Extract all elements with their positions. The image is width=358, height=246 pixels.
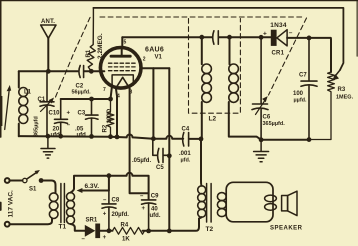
T1 core: [61, 184, 65, 223]
terminal 117VAC bottom: [5, 222, 10, 227]
svg-text:SPEAKER: SPEAKER: [270, 226, 303, 232]
node C5 / B+ riser: [167, 153, 172, 158]
wire bottom AC leg: [10, 219, 52, 225]
scan border left: [0, 0, 2, 137]
svg-text:C4: C4: [182, 127, 190, 133]
svg-text:1N34: 1N34: [270, 22, 287, 29]
resistor R3 1MEG: [309, 72, 334, 140]
svg-text:C10: C10: [49, 111, 61, 117]
V1 plate lead: [121, 37, 124, 56]
svg-text:S1: S1: [29, 187, 37, 193]
inductor L2 left winding: [201, 37, 203, 64]
wire pin2 ground drop: [152, 68, 154, 138]
svg-text:µfd.: µfd.: [181, 158, 191, 164]
svg-text:C1: C1: [38, 97, 46, 103]
wire cathode bus: [61, 98, 111, 100]
wire C4 to T2 node: [189, 138, 201, 140]
svg-text:1MEG.: 1MEG.: [336, 95, 354, 101]
wire ground rail (left): [19, 135, 183, 139]
node C3 bottom: [89, 134, 94, 139]
wire T2 primary bottom: [199, 217, 202, 218]
svg-text:CR1: CR1: [272, 51, 285, 57]
transformer T1 primary: [49, 193, 58, 219]
node C6 bottom (ground): [259, 137, 264, 142]
svg-text:.05µfd.: .05µfd.: [132, 158, 151, 164]
antenna ANT: [41, 25, 56, 38]
wire cathode pin7 lead: [111, 85, 113, 99]
svg-text:C5: C5: [156, 165, 164, 171]
node antenna junction: [46, 69, 51, 74]
T2 core: [207, 184, 212, 223]
wire 6.3V line: [74, 173, 149, 200]
svg-text:C6: C6: [263, 115, 271, 121]
V1 cathode: [112, 75, 133, 85]
wire L2/T2 riser: [200, 139, 203, 186]
C1 arrow: [41, 101, 52, 112]
scan border right: [356, 0, 358, 56]
node pin2/C5 junction: [151, 136, 156, 141]
switch S1: [23, 178, 27, 182]
svg-text:100Ω: 100Ω: [107, 108, 113, 123]
svg-text:ANT.: ANT.: [41, 19, 55, 25]
svg-text:40: 40: [151, 207, 158, 213]
node C1 bottom: [46, 134, 51, 139]
svg-text:365µµfd.: 365µµfd.: [263, 121, 286, 127]
coupling capacitor (L2): [213, 31, 219, 44]
transformer T2 secondary: [217, 193, 226, 217]
svg-text:R4: R4: [121, 223, 129, 229]
V1 plate: [111, 55, 130, 58]
V1 heater: [116, 77, 130, 88]
svg-text:L1: L1: [24, 90, 32, 96]
svg-text:T2: T2: [206, 226, 214, 233]
svg-text:1K: 1K: [122, 237, 130, 243]
scan border left tick: [0, 203, 2, 211]
L1 tuning arrow: [5, 89, 10, 130]
svg-text:+: +: [263, 31, 267, 38]
R3 wiper arrow head: [332, 74, 339, 80]
svg-text:C7: C7: [299, 73, 307, 79]
svg-text:C9: C9: [151, 194, 159, 200]
svg-text:+: +: [103, 235, 107, 241]
node C4 / L2 / T2 junction: [199, 137, 204, 142]
wire heater pin3: [130, 88, 149, 193]
wire heater pin4: [116, 88, 117, 137]
svg-text:+: +: [142, 206, 146, 212]
inductor L2 shield box (dashed): [189, 19, 241, 114]
rectifier SR1: [85, 225, 96, 237]
svg-text:5: 5: [124, 40, 127, 46]
ground (tank): [41, 136, 55, 158]
wire B+ rail bottom: [143, 219, 200, 231]
svg-text:117 VAC.: 117 VAC.: [7, 190, 14, 218]
svg-text:L2: L2: [209, 116, 217, 123]
svg-text:+: +: [103, 212, 107, 218]
wire secondary top: [71, 189, 75, 193]
svg-text:6.3V.: 6.3V.: [85, 183, 100, 190]
wire SR1 to R4: [100, 230, 112, 232]
node C8 top: [107, 173, 112, 178]
speaker cable loop: [226, 182, 273, 222]
wire L2 right bottom to ground: [229, 102, 261, 140]
svg-text:SR1: SR1: [86, 218, 98, 224]
svg-text:R3: R3: [338, 87, 346, 93]
svg-text:ufd.: ufd.: [150, 213, 161, 219]
ground (detector): [254, 140, 269, 162]
node L2 primary top: [199, 35, 204, 40]
wire top feedback line: [93, 8, 343, 70]
svg-text:365µµfd: 365µµfd: [33, 116, 39, 137]
wire C2 to grid: [84, 70, 104, 72]
svg-text:7: 7: [103, 87, 106, 93]
6.3V arrow wire: [80, 176, 109, 191]
node B+ riser bottom: [167, 229, 172, 234]
svg-text:R1: R1: [86, 49, 92, 57]
svg-text:20µfd.: 20µfd.: [112, 212, 130, 218]
node C7 top: [307, 36, 312, 41]
svg-text:C8: C8: [112, 198, 120, 204]
svg-text:V1: V1: [155, 55, 163, 61]
svg-text:T1: T1: [59, 224, 67, 231]
wire antenna stem: [47, 38, 49, 71]
svg-text:56µµfd.: 56µµfd.: [72, 90, 92, 96]
node L2 secondary top: [227, 35, 232, 40]
resistor R4 1K: [113, 227, 145, 234]
C6 arrow: [256, 101, 265, 115]
wire secondary bottom to SR1: [71, 224, 85, 231]
node S1 output: [39, 178, 44, 183]
resistor R2 100 ohm: [107, 99, 114, 137]
node C3 tap: [89, 97, 94, 102]
capacitor C7: [301, 38, 317, 140]
wire grid line left: [19, 70, 78, 72]
svg-text:3: 3: [130, 90, 133, 96]
node C6 top: [259, 35, 264, 40]
wire screen pin2: [141, 67, 169, 69]
diode CR1 1N34: [271, 30, 277, 46]
dashed gang line: [56, 17, 307, 98]
speaker voice coil: [265, 195, 277, 202]
node C8 bottom: [107, 228, 112, 233]
node heater pin4 bottom: [115, 135, 120, 140]
svg-text:1: 1: [102, 74, 105, 80]
V1 grids: [109, 63, 136, 70]
svg-text:+: +: [67, 111, 71, 117]
svg-text:ufd: ufd: [77, 132, 87, 138]
terminal 117VAC top: [5, 178, 10, 183]
speaker: [282, 196, 288, 211]
node grid junction: [89, 69, 94, 74]
svg-text:.001: .001: [179, 151, 191, 157]
capacitor C1 (variable): [40, 71, 54, 136]
svg-text:2.2MEG.: 2.2MEG.: [97, 33, 104, 59]
node C10 bottom: [58, 134, 63, 139]
scan border top: [0, 0, 358, 2]
svg-text:–: –: [289, 30, 293, 37]
capacitor C6 (variable): [252, 37, 268, 140]
node R2 bottom: [108, 134, 113, 139]
transformer T2 primary: [198, 186, 206, 217]
capacitor C10: [55, 99, 68, 136]
resistor R1 2.2MEG: [87, 8, 95, 71]
inductor L1: [19, 88, 28, 124]
capacitor C3: [86, 99, 99, 136]
node cathode junction: [108, 97, 113, 102]
svg-text:µµfd.: µµfd.: [294, 98, 308, 104]
svg-text:C3: C3: [78, 111, 86, 117]
svg-text:6AU6: 6AU6: [145, 47, 164, 54]
node C9 bottom: [146, 229, 151, 234]
svg-text:ufd: ufd: [51, 132, 61, 138]
op-amp? no: vacuum tube V1 6AU6 envelope: [100, 48, 141, 89]
wire S1 to T1: [41, 181, 55, 194]
node C7 bottom: [307, 137, 312, 142]
scan border left blob: [0, 96, 2, 126]
wire tank left leg: [18, 71, 20, 136]
svg-text:2: 2: [143, 57, 146, 63]
capacitor C9: [142, 200, 156, 231]
wire plate line: [122, 37, 331, 72]
capacitor C2: [79, 66, 84, 78]
wire detector ground line: [261, 139, 309, 141]
inductor L2 right winding: [229, 37, 231, 64]
transformer T1 secondary: [67, 193, 75, 224]
svg-text:100: 100: [293, 91, 304, 97]
wire to switch: [10, 180, 23, 182]
capacitor C5: [153, 139, 170, 163]
svg-text:4: 4: [117, 94, 120, 100]
wire B+ riser (bumps over ground rail): [168, 68, 170, 231]
capacitor C8: [102, 191, 116, 231]
capacitor C4: [183, 133, 189, 147]
svg-text:R2: R2: [102, 124, 108, 132]
